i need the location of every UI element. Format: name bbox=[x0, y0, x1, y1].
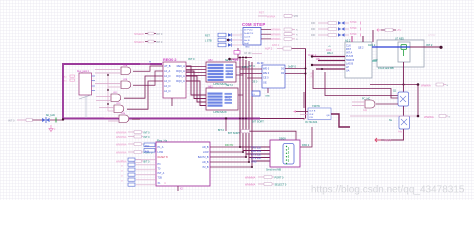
wire U9 right bbox=[331, 114, 350, 127]
wire bundle vertical 4 bbox=[249, 61, 270, 162]
resistor R8 row2 bbox=[424, 115, 451, 120]
net label +5 small bbox=[328, 46, 331, 48]
wire U9 top bbox=[303, 92, 305, 108]
svg-text:C8 104: C8 104 bbox=[244, 53, 252, 55]
resistor R31 row COM_STEP bbox=[261, 33, 298, 37]
net label RST bbox=[205, 35, 210, 38]
net label 0x3F_0 bbox=[288, 64, 296, 68]
net label LPM1 caption bbox=[214, 82, 227, 86]
resistor R13 MCU row bbox=[116, 151, 153, 155]
svg-text:RE0_A: RE0_A bbox=[177, 64, 185, 68]
svg-text:WMMMA: WMMMA bbox=[245, 184, 256, 187]
net label 0.01uF bbox=[368, 44, 376, 47]
svg-text:VSS 2: VSS 2 bbox=[384, 140, 392, 143]
wire LPM1 out2 bbox=[227, 73, 243, 76]
net label BIT_SORT top bbox=[252, 119, 264, 123]
svg-text:L STB: L STB bbox=[205, 40, 212, 43]
wire to bus bbox=[50, 118, 64, 123]
pin labels MCU stub column bbox=[121, 160, 124, 183]
svg-text:WWWA: WWWA bbox=[267, 15, 276, 18]
component D2 input row bbox=[218, 33, 242, 37]
svg-text:DIO: DIO bbox=[311, 34, 315, 37]
resistor R42 row SYNC bbox=[311, 33, 361, 37]
pin labels MCU left bbox=[158, 146, 169, 185]
svg-text:L0_N: L0_N bbox=[164, 89, 170, 93]
resistor R40 row SYNC bbox=[311, 21, 361, 25]
svg-text:OE: OE bbox=[263, 81, 267, 84]
svg-text:bit_lvdt: bit_lvdt bbox=[46, 113, 55, 117]
svg-text:GND: GND bbox=[265, 95, 270, 97]
svg-text:GND: GND bbox=[245, 47, 250, 49]
junction dot crystal bbox=[227, 39, 229, 41]
svg-text:L0_N: L0_N bbox=[164, 84, 170, 88]
net label bit_lvdt bbox=[46, 113, 55, 117]
wire vertical to timer bbox=[372, 30, 374, 42]
wire gate U8 io bbox=[352, 102, 398, 106]
svg-text:WE 0: WE 0 bbox=[263, 72, 270, 75]
bus wire bottom bbox=[63, 118, 260, 120]
component DB9 body bbox=[270, 140, 300, 167]
svg-text:WRMMA: WRMMA bbox=[271, 38, 281, 41]
wire bundle vertical 1 bbox=[240, 58, 270, 147]
svg-text:1: 1 bbox=[241, 37, 242, 39]
resistor R6 ALP row bbox=[265, 45, 306, 51]
resistor R7 row1 bbox=[421, 83, 449, 87]
svg-text:WWWA: WWWA bbox=[424, 115, 434, 119]
svg-text:WRMMA: WRMMA bbox=[271, 33, 281, 36]
component timer body bbox=[377, 40, 424, 67]
wire U3 bottom bbox=[79, 95, 91, 118]
svg-text:0x01 2: 0x01 2 bbox=[368, 44, 376, 47]
power port arrow left bbox=[377, 29, 381, 32]
svg-text:RQ0_A: RQ0_A bbox=[176, 69, 185, 73]
wire bundle top tap bbox=[238, 57, 252, 59]
svg-text:LAS B: LAS B bbox=[346, 62, 353, 65]
svg-text:WMWWA: WMWWA bbox=[116, 131, 127, 134]
component Q2 driver bbox=[389, 116, 410, 133]
svg-text:WRMMA: WRMMA bbox=[271, 29, 281, 32]
svg-text:RST: RST bbox=[346, 48, 351, 51]
svg-text:RXD 2: RXD 2 bbox=[302, 144, 310, 147]
wire maroon continuation bbox=[410, 46, 443, 49]
wire CPU bottom pin bbox=[265, 88, 270, 97]
svg-text:BIT SORT: BIT SORT bbox=[252, 119, 264, 123]
component LPM2 header bbox=[208, 84, 234, 88]
svg-text:INT 2: INT 2 bbox=[426, 43, 433, 47]
resistor R5 +5V row bbox=[381, 28, 401, 32]
svg-text:0x 3F: 0x 3F bbox=[257, 61, 264, 65]
resistor R11 MCU row bbox=[116, 135, 150, 139]
svg-text:A4p: A4p bbox=[398, 130, 403, 133]
wire gate vertical junctions bbox=[107, 73, 109, 111]
svg-text:DIO: DIO bbox=[311, 28, 315, 31]
wire counter in3 bbox=[311, 64, 345, 66]
svg-text:+5V: +5V bbox=[397, 28, 402, 32]
svg-text:STB: STB bbox=[294, 16, 299, 18]
component CPU header bbox=[257, 61, 264, 65]
svg-text:BIT 2: BIT 2 bbox=[218, 129, 225, 132]
resistor R9 BIT row bbox=[218, 129, 296, 140]
svg-text:WMWWA: WMWWA bbox=[116, 136, 127, 139]
net label INT_0 cpu bbox=[242, 65, 249, 69]
svg-text:SET 2: SET 2 bbox=[226, 84, 234, 87]
component COM_STEP header bbox=[242, 22, 266, 27]
component counter header bbox=[345, 38, 351, 42]
svg-text:INT 0: INT 0 bbox=[144, 131, 151, 134]
svg-text:SPEED1: SPEED1 bbox=[134, 41, 144, 44]
svg-text:0.1uF and MB: 0.1uF and MB bbox=[378, 67, 394, 70]
wire loop 1 bbox=[313, 70, 398, 98]
wire REG0 to LPM1 bbox=[186, 67, 206, 76]
svg-text:T2B: T2B bbox=[158, 177, 163, 180]
svg-text:REG0 2: REG0 2 bbox=[163, 58, 177, 62]
AND gate U2E bbox=[119, 113, 129, 122]
component DB9 header bbox=[279, 137, 286, 141]
net label pink arrows bbox=[308, 72, 314, 78]
svg-text:LOW: LOW bbox=[158, 151, 164, 154]
pin labels REG0 right bbox=[176, 64, 185, 83]
pin numbers COM_STEP bbox=[241, 30, 242, 42]
svg-text:LPM MUX: LPM MUX bbox=[214, 82, 227, 86]
svg-text:GND: GND bbox=[251, 160, 257, 163]
net label LPM2 caption bbox=[214, 110, 227, 114]
wire +5V tap bbox=[228, 48, 238, 60]
svg-text:CLR: CLR bbox=[309, 114, 314, 116]
svg-text:L0_N: L0_N bbox=[164, 79, 170, 83]
svg-text:WWWA: WWWA bbox=[421, 83, 431, 87]
power port VSS arrow bbox=[49, 125, 56, 132]
wire bundle vertical 5 bbox=[252, 62, 270, 167]
resistor R32 row COM_STEP bbox=[261, 37, 298, 41]
svg-text:1: 1 bbox=[241, 30, 242, 32]
svg-text:https://blog.csdn.net/qq_43478: https://blog.csdn.net/qq_43478315 bbox=[311, 185, 465, 196]
net label INT_2 bbox=[426, 43, 433, 47]
diode D1 pair bbox=[42, 117, 50, 123]
wire LPM1 out1 bbox=[236, 64, 255, 68]
wire vertical x416 bbox=[417, 85, 419, 117]
svg-text:RST: RST bbox=[205, 35, 210, 38]
svg-text:BAUT2_B: BAUT2_B bbox=[198, 156, 209, 159]
svg-text:INT 0: INT 0 bbox=[144, 136, 151, 139]
net label faint bbox=[428, 33, 436, 37]
AND gate U2A bbox=[121, 64, 131, 74]
svg-text:INT 0: INT 0 bbox=[156, 32, 163, 36]
net tick counter right bbox=[372, 60, 377, 62]
wire CPU left inputs bbox=[240, 69, 262, 84]
pin labels MCU right bbox=[198, 146, 209, 169]
wire counter in2 bbox=[316, 58, 345, 61]
net label WE_2 bbox=[327, 52, 334, 55]
svg-text:Send test MB: Send test MB bbox=[266, 169, 281, 172]
svg-text:INT_A: INT_A bbox=[158, 172, 165, 175]
wire vertical x403 mid bbox=[403, 106, 405, 116]
net label RST top bbox=[259, 12, 264, 15]
resistor R17 SELECT row bbox=[245, 183, 287, 187]
wire CPU right out2 bbox=[285, 73, 307, 75]
svg-text:0x3F 0: 0x3F 0 bbox=[288, 64, 296, 68]
svg-text:SYNC: SYNC bbox=[350, 27, 357, 30]
component counter body bbox=[345, 42, 372, 78]
net label INT_0 left bbox=[8, 118, 15, 122]
svg-text:RST: RST bbox=[259, 12, 264, 15]
wire horiz y84 bbox=[370, 83, 419, 86]
svg-text:INT 0: INT 0 bbox=[8, 118, 15, 122]
net label U9 caption bbox=[305, 120, 318, 124]
svg-text:Strl N: Strl N bbox=[244, 39, 250, 42]
component crystal green bbox=[401, 45, 407, 57]
component U3 body bbox=[79, 73, 95, 95]
net label DB9 caption bbox=[266, 169, 281, 172]
svg-text:QB: QB bbox=[326, 115, 330, 117]
wire vertical main bbox=[305, 49, 307, 119]
wire loop 2 bbox=[325, 72, 398, 96]
component DB9 connector symbol bbox=[283, 144, 294, 165]
component LVDT small bbox=[252, 91, 260, 96]
svg-text:INT 0: INT 0 bbox=[188, 57, 195, 61]
svg-text:QE 2: QE 2 bbox=[358, 46, 364, 49]
svg-text:A4p: A4p bbox=[363, 109, 368, 112]
net label 0x3F_2 bbox=[308, 53, 317, 57]
wire Q2 to gnd bbox=[381, 129, 404, 140]
svg-text:BIT SORT: BIT SORT bbox=[228, 131, 240, 135]
svg-text:CE 0: CE 0 bbox=[263, 77, 269, 80]
component COM_STEP body bbox=[243, 28, 261, 49]
component MCU body bbox=[156, 142, 210, 186]
svg-text:AD_B: AD_B bbox=[202, 146, 209, 149]
svg-text:AD_B: AD_B bbox=[202, 161, 209, 164]
svg-text:BIT 0: BIT 0 bbox=[144, 160, 151, 163]
svg-text:Con N: Con N bbox=[244, 36, 251, 38]
wire LPM2 out bbox=[225, 95, 243, 100]
svg-text:L0_N: L0_N bbox=[164, 74, 170, 78]
svg-text:RESET B: RESET B bbox=[158, 156, 169, 159]
svg-text:PLS B: PLS B bbox=[346, 55, 353, 58]
net label L_STB bbox=[205, 40, 212, 43]
svg-text:INT 0: INT 0 bbox=[156, 40, 163, 44]
wire CPU right out1 bbox=[285, 68, 307, 70]
pin labels REG0 left bbox=[164, 64, 171, 93]
svg-text:Dir Pulse: Dir Pulse bbox=[244, 29, 254, 32]
component LPM1 body bbox=[206, 62, 236, 82]
svg-text:AT_B: AT_B bbox=[164, 64, 171, 68]
AND gate U2C bbox=[111, 92, 121, 101]
wire vertical counter top bbox=[362, 36, 364, 42]
pin label MCU bottom bbox=[164, 182, 167, 185]
pin labels DB9 left bbox=[251, 146, 262, 163]
svg-text:RQ0_A: RQ0_A bbox=[176, 79, 185, 83]
watermark text bbox=[311, 185, 465, 196]
svg-text:ALP 2: ALP 2 bbox=[265, 47, 273, 51]
resistor R16 PORT row bbox=[245, 176, 284, 180]
resistor R10 top row bbox=[258, 14, 298, 18]
svg-text:L0_A: L0_A bbox=[164, 69, 170, 73]
component MCU header bbox=[157, 138, 168, 142]
svg-text:IN 74LS04: IN 74LS04 bbox=[305, 120, 318, 124]
svg-text:SYNC: SYNC bbox=[350, 33, 357, 36]
junction dot bus tap bbox=[225, 117, 227, 119]
pin labels U3 left bbox=[64, 75, 75, 83]
wire DB9 right up bbox=[300, 127, 312, 147]
component D3 input row bbox=[218, 38, 242, 42]
resistor R21 with net label INT_0 row 2 bbox=[134, 40, 163, 44]
component LPM1 header bbox=[208, 59, 233, 62]
svg-text:DirSET N: DirSET N bbox=[244, 32, 254, 35]
svg-text:P2_B: P2_B bbox=[203, 166, 209, 169]
svg-text:WE: WE bbox=[316, 58, 320, 61]
svg-text:SWD B: SWD B bbox=[346, 59, 355, 62]
svg-text:LOW: LOW bbox=[203, 151, 209, 154]
component U3 header bbox=[77, 71, 90, 73]
resistor R30 row COM_STEP bbox=[261, 28, 298, 32]
net label GND timer bbox=[373, 59, 378, 61]
svg-text:INT 0: INT 0 bbox=[242, 65, 249, 69]
svg-text:CLK: CLK bbox=[346, 44, 351, 47]
component Q1 driver bbox=[393, 90, 409, 106]
svg-text:WMMMA: WMMMA bbox=[245, 177, 256, 180]
resistor R12 MCU row bbox=[116, 143, 150, 147]
AND gate U2B bbox=[121, 79, 131, 88]
resistor R20 with net label INT_0 row 1 bbox=[134, 32, 163, 36]
svg-text:DIO: DIO bbox=[311, 22, 315, 25]
wire bottom extension bbox=[260, 119, 304, 120]
component REG0 body bbox=[163, 62, 186, 98]
wire horiz y116 bbox=[350, 115, 419, 118]
svg-text:CLK B: CLK B bbox=[309, 111, 316, 113]
component U9 header bbox=[312, 104, 320, 108]
net label +5V_2 bbox=[233, 58, 242, 62]
wire MCU right outs bbox=[210, 146, 253, 168]
wire gate inputs bbox=[95, 70, 121, 122]
resistor R10 MCU row bbox=[116, 131, 150, 135]
svg-text:Vin 2: Vin 2 bbox=[225, 97, 231, 100]
svg-text:WE 2: WE 2 bbox=[327, 52, 334, 55]
svg-text:INT A: INT A bbox=[346, 52, 353, 55]
wire REG0 to bus bundle bbox=[186, 66, 206, 106]
svg-text:SPEED0: SPEED0 bbox=[134, 33, 144, 36]
resistor R41 row SYNC bbox=[311, 27, 361, 31]
svg-text:1: 1 bbox=[241, 40, 242, 42]
svg-text:WE 0: WE 0 bbox=[263, 68, 270, 71]
wire blue bus bbox=[372, 46, 410, 48]
svg-text:Vin 0: Vin 0 bbox=[227, 73, 233, 76]
wire counter in1 bbox=[311, 55, 345, 57]
wire top input bbox=[140, 62, 152, 64]
component MCU left stubs bbox=[128, 158, 156, 186]
svg-text:0x5F 2: 0x5F 2 bbox=[272, 45, 280, 47]
component C8 bbox=[234, 51, 262, 56]
svg-text:+5V 2: +5V 2 bbox=[233, 58, 242, 62]
svg-text:WMWWA: WMWWA bbox=[116, 143, 127, 146]
component REG0 header bbox=[163, 58, 177, 62]
svg-text:PORT 0: PORT 0 bbox=[275, 177, 285, 180]
svg-text:LPM MUX: LPM MUX bbox=[214, 110, 227, 114]
wire REG0 bottom pin bbox=[171, 98, 173, 106]
svg-text:P1_A: P1_A bbox=[158, 146, 164, 149]
component MCU top-left stubs bbox=[144, 143, 155, 153]
wire counter in4 bbox=[316, 68, 345, 70]
svg-text:7407N: 7407N bbox=[312, 104, 320, 108]
svg-text:RQ0_A: RQ0_A bbox=[176, 74, 185, 78]
net label BIT_SORT 2 bbox=[228, 131, 240, 135]
svg-text:OE 0: OE 0 bbox=[252, 82, 258, 84]
net label INT_0 right of REG0 bbox=[188, 57, 195, 61]
component U9 body bbox=[308, 108, 331, 120]
AND gate U8 bbox=[362, 98, 375, 112]
svg-text:GND: GND bbox=[373, 59, 378, 61]
AND gate U2D bbox=[114, 103, 124, 112]
svg-text:C0M STEP: C0M STEP bbox=[242, 22, 266, 27]
resistor R14 MCU row bbox=[116, 160, 150, 164]
wire bus tap down bbox=[225, 119, 227, 132]
resistor R1 bbox=[26, 119, 42, 122]
svg-text:LP: LP bbox=[346, 66, 349, 69]
wire vertical x403 top bbox=[403, 62, 405, 92]
component timer header bbox=[395, 38, 404, 41]
svg-text:0x5F: 0x5F bbox=[326, 49, 332, 52]
wire vertical counter top 2 bbox=[351, 36, 353, 42]
component LPM2 body bbox=[206, 88, 238, 110]
net label timer caption bbox=[378, 67, 394, 70]
wire U9 left bbox=[293, 110, 308, 114]
svg-text:WWW: WWW bbox=[428, 33, 436, 37]
component CPU body bbox=[262, 65, 285, 88]
power port GND arrow bbox=[375, 138, 392, 143]
svg-text:SYNC: SYNC bbox=[350, 21, 357, 24]
svg-text:WMWWA: WMWWA bbox=[116, 151, 127, 154]
wire gate outputs bbox=[124, 66, 163, 119]
svg-text:SELECT 0: SELECT 0 bbox=[275, 184, 287, 187]
svg-text:DirM: DirM bbox=[244, 42, 249, 45]
net label DIO_Hz bbox=[225, 144, 234, 147]
svg-text:A2B: A2B bbox=[145, 150, 150, 153]
svg-text:UA: UA bbox=[346, 70, 350, 73]
wire bundle vertical 3 bbox=[246, 60, 270, 157]
wire bundle vertical 2 bbox=[243, 59, 270, 151]
bus wire left loop bbox=[63, 64, 162, 119]
net label 0x5F bbox=[326, 49, 332, 52]
component D4 input row bbox=[218, 43, 242, 47]
wire MCU bottom stub bbox=[178, 186, 184, 191]
junction dots bundle bbox=[239, 118, 247, 120]
wire bbox=[17, 119, 26, 121]
